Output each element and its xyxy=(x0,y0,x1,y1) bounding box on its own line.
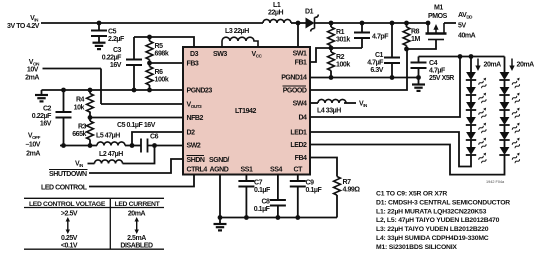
svg-text:>2.5V: >2.5V xyxy=(61,211,78,218)
node SHUTDOWN (active low) xyxy=(49,170,88,179)
wire AGND drop xyxy=(219,175,221,224)
svg-text:L1: 22µH MURATA LQH32CN220K53: L1: 22µH MURATA LQH32CN220K53 xyxy=(376,208,487,215)
svg-text:PGOOD: PGOOD xyxy=(283,88,307,95)
node VIN top left xyxy=(7,15,40,30)
capacitor C6 xyxy=(141,134,159,153)
inductor L2 xyxy=(95,151,124,164)
svg-text:2.5mA: 2.5mA xyxy=(127,235,146,242)
capacitor C7 xyxy=(238,180,271,195)
svg-text:R4: R4 xyxy=(76,97,85,104)
wire SW4 line to L4 xyxy=(310,102,318,104)
wire VIN rail top xyxy=(41,22,263,24)
svg-text:L2 47µH: L2 47µH xyxy=(99,151,123,158)
resistor R1 xyxy=(328,27,351,46)
svg-text:D3: D3 xyxy=(190,51,199,58)
svg-text:C4: C4 xyxy=(429,60,438,67)
svg-text:DISABLED: DISABLED xyxy=(120,243,153,250)
svg-text:4.7µF: 4.7µF xyxy=(367,60,384,67)
svg-text:D4: D4 xyxy=(298,115,307,122)
svg-text:C8: C8 xyxy=(261,199,270,206)
LED D16 string1 xyxy=(466,147,488,164)
LED D23 string2 xyxy=(499,102,521,119)
LED D22 string2 xyxy=(499,87,521,104)
svg-text:M1: Si2301BDS SILICONIX: M1: Si2301BDS SILICONIX xyxy=(376,244,457,251)
wire PGOOD line and riser xyxy=(310,49,407,90)
wire LED CONTROL line xyxy=(89,175,194,187)
ground below C4 on PGND14 xyxy=(412,85,425,91)
wire M1 gate line xyxy=(407,40,437,50)
capacitor C5 xyxy=(91,29,125,44)
svg-text:0.25V: 0.25V xyxy=(61,235,78,242)
resistor R7 xyxy=(334,177,361,196)
svg-text:SW3: SW3 xyxy=(213,51,227,58)
resistor R8 xyxy=(403,27,420,46)
svg-text:698k: 698k xyxy=(155,51,169,58)
wire VOUT3 line xyxy=(101,103,183,105)
wire R7 bottom stub xyxy=(336,195,338,218)
LED D24 string2 xyxy=(499,117,521,134)
inductor L3 xyxy=(222,28,258,47)
ground on PGND23 line xyxy=(35,95,48,101)
svg-text:LT1942: LT1942 xyxy=(235,108,256,115)
svg-text:100k: 100k xyxy=(155,77,169,84)
svg-text:R8: R8 xyxy=(411,29,420,36)
pin label SHDN (active low) xyxy=(187,156,205,165)
svg-text:L5 47µH: L5 47µH xyxy=(96,133,120,140)
wire M1 drain to AVDD xyxy=(444,22,456,24)
wire R5 top stub xyxy=(149,37,151,41)
svg-text:40mA: 40mA xyxy=(458,33,476,40)
wire PGND14 line xyxy=(310,77,419,79)
wire D2 line xyxy=(132,132,183,146)
svg-text:L2, L5: 47µH TAIYO YUDEN LB201: L2, L5: 47µH TAIYO YUDEN LB2012B470 xyxy=(376,217,500,224)
svg-text:PGND14: PGND14 xyxy=(281,75,307,82)
wire 4.7pF cap riser xyxy=(361,23,363,48)
wire L5 to C6 and D2 tap xyxy=(125,145,141,147)
LED D12 string1 xyxy=(466,87,488,104)
wire NFB2 line xyxy=(90,117,183,119)
wire C5 to ground xyxy=(98,36,100,43)
node VON xyxy=(25,59,40,82)
wire node D3 horizontal xyxy=(134,37,194,47)
svg-text:L1: L1 xyxy=(273,2,281,9)
svg-text:10k: 10k xyxy=(74,105,85,112)
svg-text:R3: R3 xyxy=(78,124,87,131)
LED D11 string1 xyxy=(466,72,488,89)
svg-text:SHDN: SHDN xyxy=(187,157,205,164)
notes list xyxy=(376,191,510,251)
resistor R6 xyxy=(146,67,169,86)
ground below C5 xyxy=(93,43,106,49)
table arrows xyxy=(66,217,70,234)
svg-text:FB1: FB1 xyxy=(295,60,307,67)
svg-text:LED CURRENT: LED CURRENT xyxy=(115,201,161,208)
wire R4 stubs xyxy=(89,90,91,121)
svg-text:C6: C6 xyxy=(150,134,159,141)
svg-text:100k: 100k xyxy=(336,62,350,69)
svg-text:0.1µF: 0.1µF xyxy=(306,187,323,194)
wire LED anode rail xyxy=(419,56,505,58)
wire L2 line xyxy=(88,146,155,164)
svg-text:665k: 665k xyxy=(72,131,86,138)
wire D4 line xyxy=(310,57,460,118)
svg-text:D2: D2 xyxy=(187,130,196,137)
wire PGND23 ground line xyxy=(42,90,184,95)
pin label PGOOD (active low) xyxy=(283,86,307,95)
wire LED string 2 top drop xyxy=(504,57,506,73)
capacitor C1 xyxy=(367,52,400,74)
transistor M1 PMOS xyxy=(426,5,448,40)
op-amp U1 LT1942 IC body xyxy=(183,47,310,175)
wire SS4 drop with C8 xyxy=(277,175,279,218)
diode D1 schottky xyxy=(305,9,318,32)
resistor R3 xyxy=(72,121,93,140)
capacitor 4.7pF xyxy=(354,33,389,41)
svg-text:0.1µF: 0.1µF xyxy=(254,187,271,194)
ground on bottom rail xyxy=(214,224,227,230)
svg-text:M1: M1 xyxy=(434,5,443,12)
resistor R2 xyxy=(328,52,351,71)
resistor R4 xyxy=(74,94,94,113)
wire LED2 line xyxy=(310,145,505,175)
svg-text:C5 0.1µF 16V: C5 0.1µF 16V xyxy=(117,122,156,129)
wire R1 stubs xyxy=(330,23,332,48)
wire C2 riser top xyxy=(63,90,65,112)
svg-text:L3 22µH: L3 22µH xyxy=(225,28,249,35)
svg-text:LED CONTROL: LED CONTROL xyxy=(41,185,88,192)
svg-text:LED1: LED1 xyxy=(290,130,307,137)
LED D13 string1 xyxy=(466,102,488,119)
wire VOFF line to L5 xyxy=(60,145,97,147)
wire L4 to VIN tail xyxy=(344,102,356,104)
wire rail L1 to D1 xyxy=(291,22,306,24)
svg-text:0.22µF: 0.22µF xyxy=(102,55,122,62)
wire C2 riser bottom xyxy=(63,117,65,146)
svg-text:10V: 10V xyxy=(27,67,39,74)
wire FB4 to R7 xyxy=(310,158,337,177)
svg-text:SW2: SW2 xyxy=(187,143,201,150)
svg-text:D1: CMDSH-3 CENTRAL SEMICONDUC: D1: CMDSH-3 CENTRAL SEMICONDUCTOR xyxy=(376,199,510,206)
wire R8 stubs xyxy=(406,23,408,49)
svg-text:R2: R2 xyxy=(336,54,345,61)
wire SS1 drop with C7 xyxy=(245,175,247,218)
svg-text:0.1µF: 0.1µF xyxy=(254,206,271,213)
table LED control xyxy=(24,198,164,249)
svg-text:20mA: 20mA xyxy=(517,62,535,69)
node VOFF xyxy=(25,133,40,158)
inductor L1 xyxy=(263,2,291,23)
svg-text:R6: R6 xyxy=(155,69,164,76)
svg-text:25V X5R: 25V X5R xyxy=(429,75,454,82)
wire VON riser to VOUT3 xyxy=(100,69,102,105)
svg-text:22µH: 22µH xyxy=(268,10,283,17)
svg-text:4.7µF: 4.7µF xyxy=(429,68,446,75)
svg-text:2mA: 2mA xyxy=(25,75,39,82)
pin label SGND/AGND xyxy=(209,157,229,174)
resistor R5 xyxy=(146,41,169,60)
LED string 2 current arrow 20mA xyxy=(509,59,534,72)
wire FB3 line xyxy=(150,60,184,67)
capacitor C4 xyxy=(411,60,455,82)
svg-text:C1: C1 xyxy=(375,52,384,59)
svg-text:LED CONTROL VOLTAGE: LED CONTROL VOLTAGE xyxy=(29,201,106,208)
inductor L5 xyxy=(96,133,125,146)
svg-text:SHUTDOWN: SHUTDOWN xyxy=(49,171,87,178)
wire LED string 1 top drop xyxy=(470,57,472,73)
capacitor C8 xyxy=(254,199,286,214)
svg-text:L4: 33µH SUMIDA CDPH4D19-330MC: L4: 33µH SUMIDA CDPH4D19-330MC xyxy=(376,235,489,242)
svg-text:4.7pF: 4.7pF xyxy=(372,34,389,41)
wire R2 stubs xyxy=(330,48,332,78)
svg-text:16V: 16V xyxy=(40,121,52,128)
svg-text:C1 TO C9: X5R OR X7R: C1 TO C9: X5R OR X7R xyxy=(376,191,447,198)
svg-text:2.2µF: 2.2µF xyxy=(108,36,125,43)
wire LED string 2 inter-diode segments xyxy=(504,80,506,147)
svg-text:1942 F04a: 1942 F04a xyxy=(486,180,505,184)
svg-text:4.99Ω: 4.99Ω xyxy=(343,187,361,194)
svg-text:R5: R5 xyxy=(155,43,164,50)
svg-text:FB3: FB3 xyxy=(187,61,199,68)
svg-text:C5: C5 xyxy=(108,29,117,36)
svg-text:16V: 16V xyxy=(110,62,122,69)
wire C3 top riser xyxy=(133,37,135,59)
wire C4 risers xyxy=(418,57,420,85)
svg-text:C3: C3 xyxy=(113,47,122,54)
svg-text:R1: R1 xyxy=(336,29,345,36)
wire SHUTDOWN line xyxy=(89,159,183,173)
svg-text:SGND/: SGND/ xyxy=(209,157,229,164)
LED D25 string2 xyxy=(499,132,521,149)
svg-text:CT: CT xyxy=(294,167,304,174)
wire LED string 1 inter-diode segments xyxy=(470,80,472,147)
capacitor C9 xyxy=(290,180,323,195)
LED D26 string2 xyxy=(499,147,521,164)
svg-text:SS4: SS4 xyxy=(270,167,282,174)
svg-text:C7: C7 xyxy=(254,180,263,187)
svg-text:FB4: FB4 xyxy=(295,155,307,162)
svg-text:C9: C9 xyxy=(306,180,315,187)
capacitor C3 xyxy=(102,47,142,69)
svg-text:CTRL4: CTRL4 xyxy=(187,167,208,174)
svg-text:–10V: –10V xyxy=(25,142,40,149)
capacitor C2 xyxy=(32,106,72,128)
wire C5 riser xyxy=(98,23,100,30)
wire rail D1 to M1 source xyxy=(315,22,429,24)
svg-text:D1: D1 xyxy=(305,9,314,16)
svg-text:AGND: AGND xyxy=(210,167,229,174)
svg-text:NFB2: NFB2 xyxy=(187,115,204,122)
svg-text:L3: 22µH TAIYO YUDEN LB2012B22: L3: 22µH TAIYO YUDEN LB2012B220 xyxy=(376,226,489,233)
svg-text:SW1: SW1 xyxy=(293,51,307,58)
wire R6 bottom stub xyxy=(149,85,151,90)
wire C6 to SW2 xyxy=(148,145,184,147)
svg-text:SS1: SS1 xyxy=(241,167,253,174)
svg-text:PMOS: PMOS xyxy=(428,13,448,20)
svg-text:20mA: 20mA xyxy=(484,62,502,69)
svg-text:3V TO 4.2V: 3V TO 4.2V xyxy=(7,23,40,30)
LED string 1 current arrow 20mA xyxy=(475,59,501,72)
svg-text:2mA: 2mA xyxy=(26,151,40,158)
wire VON line xyxy=(43,68,102,70)
LED D14 string1 xyxy=(466,117,488,134)
wire LED1 line xyxy=(310,132,471,167)
svg-text:SW4: SW4 xyxy=(293,101,307,108)
svg-text:<0.1V: <0.1V xyxy=(61,243,78,250)
wire R3 bottom stub xyxy=(89,140,91,146)
wire C3 bottom riser xyxy=(133,65,135,91)
svg-text:C2: C2 xyxy=(43,106,52,113)
svg-text:R7: R7 xyxy=(343,179,352,186)
svg-text:20mA: 20mA xyxy=(128,211,146,218)
LED D21 string2 xyxy=(499,72,521,89)
svg-text:LED2: LED2 xyxy=(290,142,307,149)
inductor L4 xyxy=(317,99,346,114)
wire SW1 riser xyxy=(297,23,299,47)
wire CT drop with C9 xyxy=(297,175,299,218)
node AVDD xyxy=(458,12,476,40)
svg-text:5V: 5V xyxy=(458,23,466,30)
svg-text:301k: 301k xyxy=(336,37,350,44)
svg-text:PGND23: PGND23 xyxy=(187,88,213,95)
wire C1 risers xyxy=(391,23,393,78)
wire FB1 jog xyxy=(310,48,362,62)
svg-text:6.3V: 6.3V xyxy=(370,67,383,74)
svg-text:1M: 1M xyxy=(411,36,420,43)
svg-text:0.22µF: 0.22µF xyxy=(32,113,52,120)
LED D15 string1 xyxy=(466,132,488,149)
wire bottom ground rail xyxy=(220,217,337,219)
svg-text:L4 33µH: L4 33µH xyxy=(317,108,341,115)
